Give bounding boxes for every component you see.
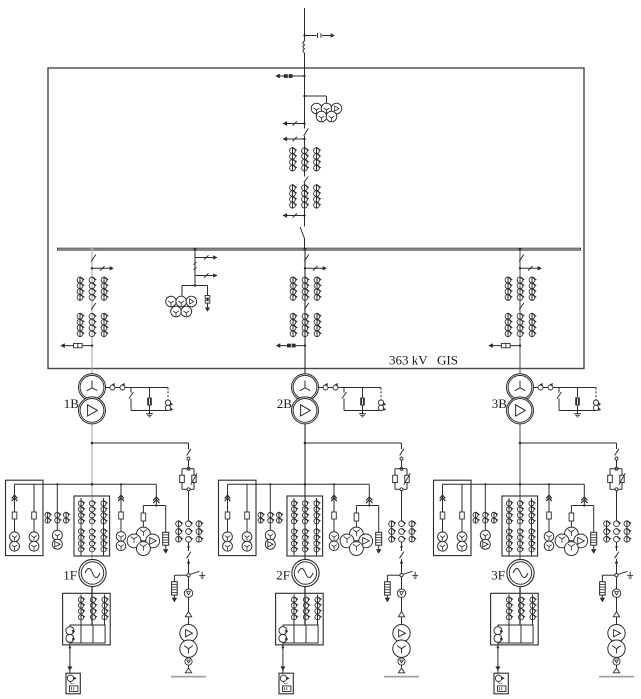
svg-text:3F: 3F xyxy=(491,568,505,583)
svg-text:1B: 1B xyxy=(64,396,79,411)
svg-text:1F: 1F xyxy=(63,568,77,583)
svg-text:2F: 2F xyxy=(276,568,290,583)
svg-text:GIS: GIS xyxy=(437,353,458,368)
svg-text:2B: 2B xyxy=(277,396,293,411)
svg-text:3B: 3B xyxy=(492,396,508,411)
svg-text:363 kV: 363 kV xyxy=(389,353,428,368)
